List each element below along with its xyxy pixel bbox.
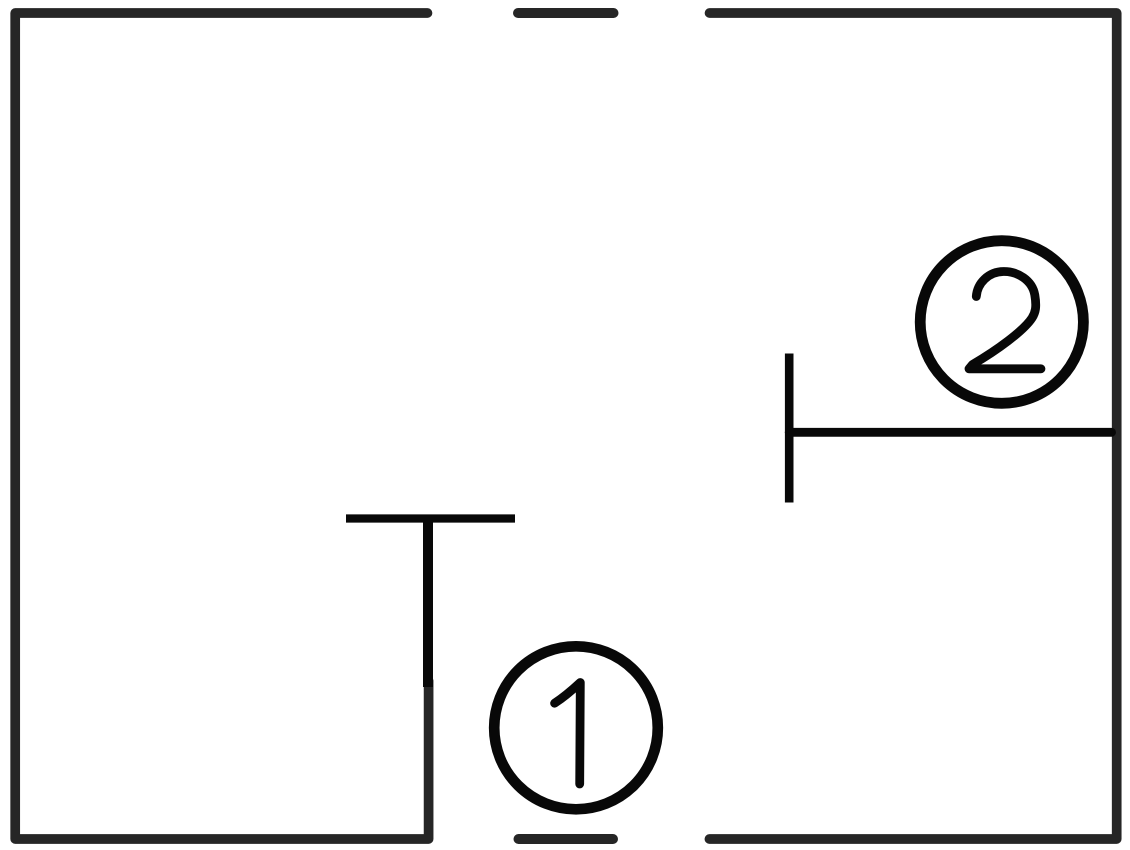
wall: bottom dash (door gap segment) (519, 834, 614, 844)
partition symbol 2: horizontal stem (789, 428, 1111, 437)
partition symbol 1: vertical stem (423, 519, 433, 687)
digit 1 (555, 683, 581, 785)
callout circle 2 (920, 241, 1083, 404)
partition symbol 1: top bar (346, 514, 515, 522)
wall: top dash (door gap segment) (518, 8, 614, 18)
wall: left + top-left + bottom-left + interior partition stub (15, 13, 428, 839)
digit 2 (969, 271, 1041, 368)
partition symbol 2: crossbar (785, 354, 794, 503)
wall: top-right + right + bottom-right (709, 13, 1116, 839)
callout circle 1 (494, 646, 658, 809)
